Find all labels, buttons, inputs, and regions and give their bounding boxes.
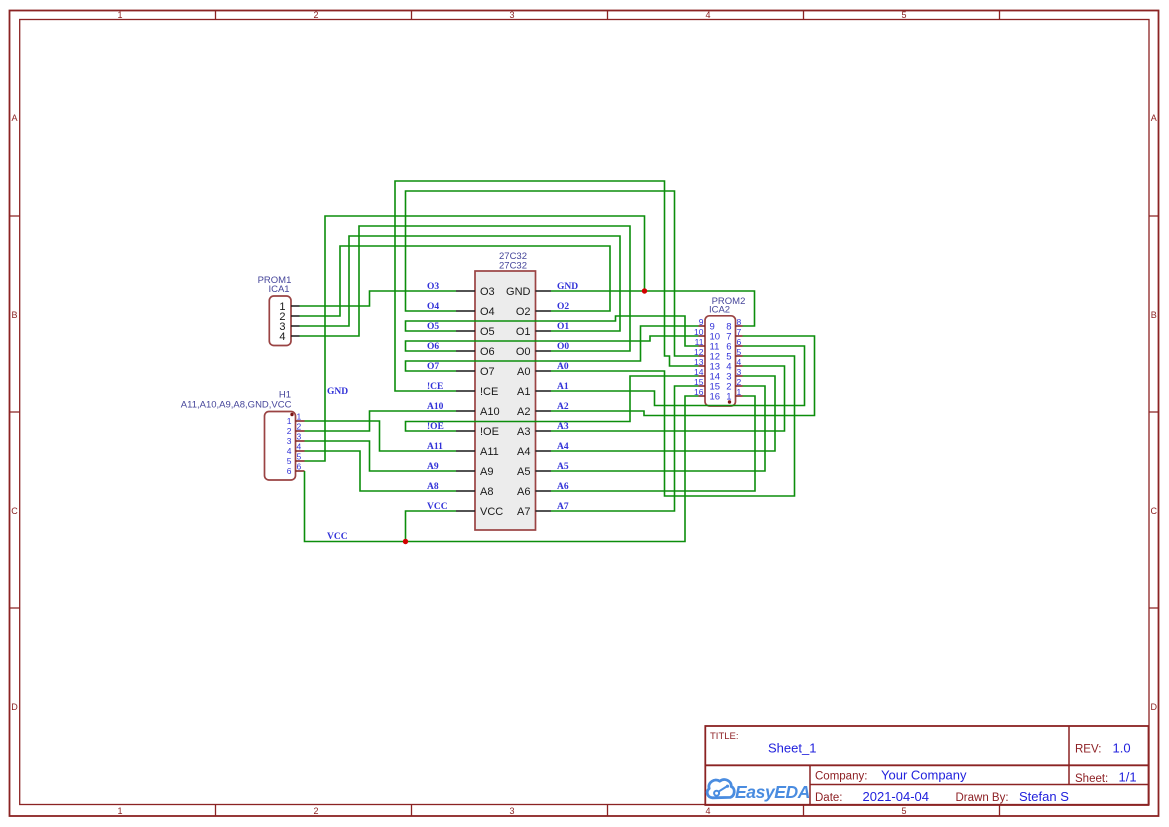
svg-text:O2: O2 bbox=[516, 306, 531, 318]
svg-text:VCC: VCC bbox=[427, 502, 448, 512]
svg-text:6: 6 bbox=[737, 337, 742, 347]
wire net A6 : U1.A6 to PROM2.1 bbox=[551, 396, 755, 491]
svg-text:Sheet:: Sheet: bbox=[1075, 773, 1108, 785]
svg-text:Sheet_1: Sheet_1 bbox=[768, 741, 816, 756]
svg-text:2: 2 bbox=[287, 426, 292, 436]
svg-text:4: 4 bbox=[705, 806, 710, 816]
wire net A10 : H1.2 to U1.A10 bbox=[305, 411, 457, 431]
svg-text:A10: A10 bbox=[480, 406, 500, 418]
svg-text:GND: GND bbox=[506, 286, 531, 298]
svg-text:A7: A7 bbox=[557, 502, 569, 512]
wire net VCC : H1.6 along bottom up to PROM2.16 bbox=[305, 396, 699, 542]
svg-text:1: 1 bbox=[117, 806, 122, 816]
svg-text:O2: O2 bbox=[557, 302, 569, 312]
wire net GND : U1.GND to PROM2.8 bbox=[551, 291, 755, 326]
svg-text:ICA1: ICA1 bbox=[268, 284, 289, 295]
svg-text:EasyEDA: EasyEDA bbox=[735, 782, 810, 802]
svg-text:5: 5 bbox=[901, 10, 906, 20]
IC U1 left pin names bbox=[480, 286, 503, 518]
svg-text:5: 5 bbox=[287, 456, 292, 466]
connector PROM1 pin stubs 1-4 bbox=[291, 306, 300, 336]
svg-text:O0: O0 bbox=[516, 346, 531, 358]
svg-text:!CE: !CE bbox=[480, 386, 498, 398]
title block divider under TITLE row bbox=[705, 764, 1148, 766]
svg-text:A6: A6 bbox=[517, 486, 530, 498]
svg-text:B: B bbox=[1151, 310, 1157, 320]
svg-text:O7: O7 bbox=[427, 362, 439, 372]
svg-text:A3: A3 bbox=[517, 426, 530, 438]
svg-text:2: 2 bbox=[313, 10, 318, 20]
wire net !CE : U1.!CE up over the top to PROM2.13 bbox=[395, 181, 699, 391]
wire net A8 : H1.4 to U1.A8 bbox=[305, 451, 457, 491]
frame column ticks bottom bbox=[216, 805, 1000, 817]
svg-text:27C32: 27C32 bbox=[499, 261, 527, 272]
svg-text:3: 3 bbox=[297, 432, 302, 442]
svg-text:O5: O5 bbox=[480, 326, 495, 338]
svg-text:A5: A5 bbox=[557, 462, 569, 472]
wire net A0 : U1.A0 under PROM2 to PROM2.5 bbox=[551, 356, 795, 496]
IC U1 right pin names bbox=[506, 286, 531, 518]
IC U1 left pin stubs (O3,O4,O5,O6,O7,!CE,A10,!OE,A11,A9,A8,VCC) bbox=[456, 291, 475, 511]
svg-text:A5: A5 bbox=[517, 466, 530, 478]
wire net A5 : U1.A5 to PROM2.2 bbox=[551, 386, 765, 471]
svg-text:O0: O0 bbox=[557, 342, 569, 352]
svg-text:A11,A10,A9,A8,GND,VCC: A11,A10,A9,A8,GND,VCC bbox=[181, 400, 292, 411]
title block divider under Company/Sheet row bbox=[810, 784, 1149, 786]
wire net !OE : U1.!OE across body to PROM2.14 bbox=[406, 376, 699, 431]
svg-text:9: 9 bbox=[699, 317, 704, 327]
svg-text:A11: A11 bbox=[480, 446, 499, 458]
svg-text:3: 3 bbox=[737, 367, 742, 377]
svg-text:2021-04-04: 2021-04-04 bbox=[863, 789, 930, 804]
frame row letters right bbox=[1150, 113, 1157, 712]
svg-text:1: 1 bbox=[117, 10, 122, 20]
svg-text:3: 3 bbox=[509, 806, 514, 816]
svg-text:1: 1 bbox=[737, 387, 742, 397]
svg-text:1: 1 bbox=[297, 412, 302, 422]
svg-text:A1: A1 bbox=[517, 386, 530, 398]
connector PROM1 (ICA1) body bbox=[269, 296, 291, 346]
svg-text:3: 3 bbox=[509, 10, 514, 20]
svg-text:O6: O6 bbox=[480, 346, 495, 358]
svg-text:A7: A7 bbox=[517, 506, 530, 518]
svg-text:O6: O6 bbox=[427, 342, 439, 352]
svg-text:A: A bbox=[11, 113, 17, 123]
wires (all nets), green bbox=[300, 181, 815, 542]
svg-text:1.0: 1.0 bbox=[1113, 741, 1131, 756]
svg-text:8: 8 bbox=[737, 317, 742, 327]
svg-text:A8: A8 bbox=[427, 482, 439, 492]
svg-text:1: 1 bbox=[287, 416, 292, 426]
svg-text:O5: O5 bbox=[427, 322, 439, 332]
wire net A2 : U1.A2 under PROM2 to PROM2.7 bbox=[551, 336, 815, 416]
svg-text:A3: A3 bbox=[557, 422, 569, 432]
svg-text:5: 5 bbox=[297, 452, 302, 462]
svg-text:A2: A2 bbox=[517, 406, 530, 418]
svg-text:A1: A1 bbox=[557, 382, 569, 392]
connector H1 pin stubs 1-6 bbox=[296, 421, 305, 471]
EasyEDA logo cloud icon bbox=[707, 780, 734, 798]
frame row ticks right bbox=[1149, 216, 1159, 608]
svg-text:O3: O3 bbox=[480, 286, 495, 298]
connector PROM2 left pin stubs 9-16 bbox=[699, 326, 706, 396]
connector PROM1 pin numbers 1-4 bbox=[279, 301, 285, 343]
connector PROM2 (ICA2) body bbox=[705, 316, 736, 406]
svg-text:!OE: !OE bbox=[480, 426, 499, 438]
svg-text:4: 4 bbox=[297, 442, 302, 452]
connector PROM2 right pin stubs 8-1 bbox=[736, 326, 743, 396]
svg-text:Stefan S: Stefan S bbox=[1019, 789, 1069, 804]
svg-text:A9: A9 bbox=[427, 462, 439, 472]
wire net A1 : U1.A1 under PROM2 to PROM2.6 bbox=[551, 346, 805, 406]
wire net A7 : U1.A7 up to PROM2.15 bbox=[551, 386, 699, 511]
frame row ticks left bbox=[10, 216, 20, 608]
connector PROM2 outside pin numbers 9-16 bbox=[694, 317, 704, 397]
svg-text:4: 4 bbox=[737, 357, 742, 367]
svg-text:7: 7 bbox=[737, 327, 742, 337]
wire net O5 : U1.O5 across body to PROM2.11 bbox=[406, 316, 699, 346]
svg-text:16: 16 bbox=[710, 392, 721, 403]
svg-text:2: 2 bbox=[737, 377, 742, 387]
svg-text:O7: O7 bbox=[480, 366, 495, 378]
svg-text:!CE: !CE bbox=[427, 382, 443, 392]
svg-text:C: C bbox=[1150, 506, 1157, 516]
frame row letters left bbox=[11, 113, 18, 712]
svg-text:O4: O4 bbox=[480, 306, 495, 318]
svg-text:B: B bbox=[11, 310, 17, 320]
svg-text:!OE: !OE bbox=[427, 422, 444, 432]
svg-text:REV:: REV: bbox=[1075, 744, 1101, 756]
frame column numbers top bbox=[117, 10, 906, 20]
svg-text:A: A bbox=[1151, 113, 1157, 123]
connector PROM2 pin-1 marker dot bbox=[728, 400, 731, 403]
svg-text:5: 5 bbox=[901, 806, 906, 816]
svg-text:A0: A0 bbox=[557, 362, 569, 372]
svg-text:Your Company: Your Company bbox=[881, 768, 967, 783]
frame column ticks top bbox=[216, 11, 1000, 20]
svg-text:O4: O4 bbox=[427, 302, 439, 312]
connector H1 outside pin numbers 1-6 bbox=[297, 412, 302, 472]
svg-text:A2: A2 bbox=[557, 402, 569, 412]
svg-text:ICA2: ICA2 bbox=[709, 305, 730, 316]
svg-text:2: 2 bbox=[313, 806, 318, 816]
wire net O6 : U1.O6 across body to PROM2.10 bbox=[406, 336, 699, 351]
svg-text:Date:: Date: bbox=[815, 792, 843, 804]
svg-text:GND: GND bbox=[327, 387, 348, 397]
wire net GND : junction tap over the top down to H1.5 bbox=[305, 216, 645, 461]
svg-text:VCC: VCC bbox=[480, 506, 503, 518]
svg-text:GND: GND bbox=[557, 282, 578, 292]
wire net A4 : U1.A4 to PROM2.3 bbox=[551, 376, 775, 451]
svg-text:TITLE:: TITLE: bbox=[710, 731, 739, 742]
connector PROM2 outside pin numbers 8-1 bbox=[737, 317, 742, 397]
svg-text:A11: A11 bbox=[427, 442, 443, 452]
svg-text:A6: A6 bbox=[557, 482, 569, 492]
svg-text:A4: A4 bbox=[557, 442, 569, 452]
svg-text:D: D bbox=[1150, 702, 1157, 712]
svg-text:C: C bbox=[11, 506, 18, 516]
connector H1 inside pin names 1-6 bbox=[287, 416, 292, 476]
IC U1 27C32 body bbox=[475, 271, 536, 530]
wire net O2 : PROM1.2 up and over to U1.O2 bbox=[300, 246, 611, 316]
svg-text:O1: O1 bbox=[516, 326, 531, 338]
svg-text:6: 6 bbox=[297, 462, 302, 472]
connector H1 pin-1 marker dot bbox=[290, 413, 293, 416]
connector H1 body bbox=[265, 412, 296, 481]
wire net O3 : PROM1.1 to U1.O3 bbox=[300, 291, 457, 306]
wire net O7 : U1.O7 across body to PROM2.9 bbox=[406, 326, 699, 371]
net labels right of U1 bbox=[557, 282, 578, 512]
wire net O1 : PROM1.3 up and over to U1.O1 bbox=[300, 236, 621, 331]
svg-text:O1: O1 bbox=[557, 322, 569, 332]
svg-text:A0: A0 bbox=[517, 366, 530, 378]
title block logo cell divider bbox=[809, 765, 811, 805]
junction dot VCC at (405.5,541.5) bbox=[403, 539, 408, 544]
svg-text:VCC: VCC bbox=[327, 532, 348, 542]
connector PROM2 inside pin names 8-1 bbox=[726, 322, 731, 403]
svg-text:1/1: 1/1 bbox=[1119, 770, 1137, 785]
svg-text:4: 4 bbox=[279, 331, 285, 343]
svg-text:1: 1 bbox=[726, 392, 731, 403]
svg-text:3: 3 bbox=[287, 436, 292, 446]
wire net A9 : H1.3 to U1.A9 bbox=[305, 441, 457, 471]
wire net O4 : U1.O4 up over the top to PROM2.12 bbox=[406, 191, 699, 356]
title block REV column divider bbox=[1068, 726, 1070, 785]
svg-text:Company:: Company: bbox=[815, 771, 867, 783]
svg-text:Drawn By:: Drawn By: bbox=[956, 792, 1009, 804]
wire net A3 : U1.A3 to PROM2.4 bbox=[551, 366, 785, 431]
svg-text:A8: A8 bbox=[480, 486, 493, 498]
IC U1 right pin stubs (GND,O2,O1,O0,A0,A1,A2,A3,A4,A5,A6,A7) bbox=[536, 291, 552, 511]
wire net O0 : PROM1.4 up and over to U1.O0 bbox=[300, 226, 631, 351]
svg-text:5: 5 bbox=[737, 347, 742, 357]
svg-text:4: 4 bbox=[705, 10, 710, 20]
frame column numbers bottom bbox=[117, 806, 906, 816]
svg-text:A4: A4 bbox=[517, 446, 530, 458]
wire net VCC : U1.VCC down to junction bbox=[406, 511, 457, 542]
svg-text:D: D bbox=[11, 702, 18, 712]
connector PROM2 inside pin names 9-16 bbox=[710, 322, 721, 403]
svg-text:2: 2 bbox=[297, 422, 302, 432]
svg-text:O3: O3 bbox=[427, 282, 439, 292]
junction dot GND at (644.5,291) bbox=[642, 288, 647, 293]
title block outline bbox=[705, 726, 1148, 805]
net labels left of U1 bbox=[427, 282, 448, 512]
svg-text:A10: A10 bbox=[427, 402, 444, 412]
svg-text:A9: A9 bbox=[480, 466, 493, 478]
wire net A11 : H1.1 to U1.A11 bbox=[305, 421, 457, 451]
svg-text:4: 4 bbox=[287, 446, 292, 456]
svg-text:6: 6 bbox=[287, 466, 292, 476]
